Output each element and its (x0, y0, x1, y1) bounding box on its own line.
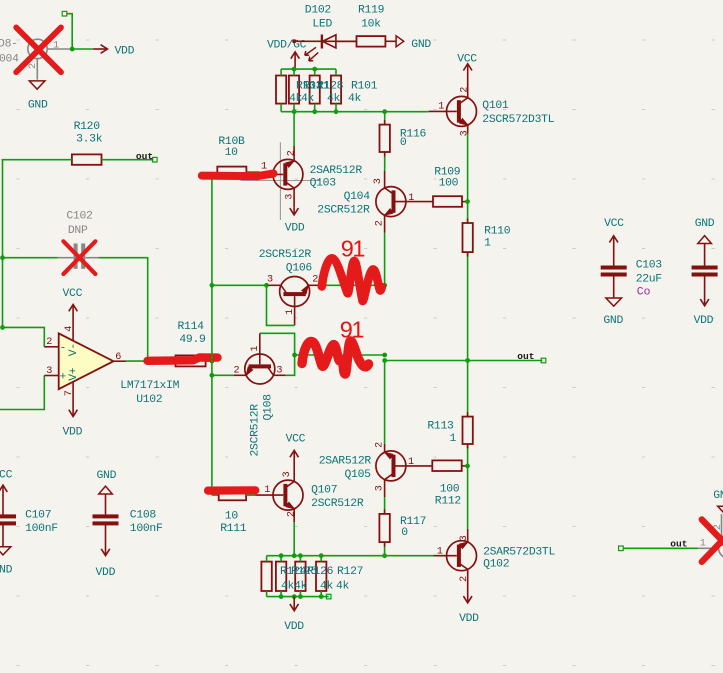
svg-text:out: out (517, 351, 534, 362)
svg-text:2: 2 (312, 274, 318, 285)
bottom bank top wire (267, 555, 434, 557)
svg-text:1: 1 (250, 345, 261, 351)
junction mid rail / Q108 wire (210, 373, 215, 378)
wire mid rail to Q106 (212, 284, 269, 286)
svg-text:V-: V- (68, 343, 80, 356)
svg-text:1: 1 (484, 238, 491, 250)
red marker short across R114 (148, 357, 218, 360)
resistor bank bottom R (col 4) (316, 556, 326, 597)
power symbol VCC above Q107 (286, 434, 306, 458)
unconnected end square out (541, 358, 546, 363)
svg-text:R127: R127 (337, 566, 363, 578)
svg-text:D102: D102 (305, 5, 332, 17)
svg-text:VDD: VDD (284, 621, 304, 633)
svg-text:2SCR512R: 2SCR512R (311, 498, 364, 510)
svg-text:out: out (136, 151, 153, 162)
junction mid rail / R114 (210, 359, 215, 364)
red X annotation over C102 (63, 241, 95, 274)
capacitor C103 22uF (601, 218, 663, 327)
op-amp U102 LM7171xIM (44, 322, 179, 406)
svg-text:22uF: 22uF (636, 273, 663, 285)
svg-text:2: 2 (287, 511, 298, 517)
svg-text:2: 2 (287, 150, 298, 156)
wire Q108 base loop (260, 333, 295, 375)
power symbol VCC above op-amp (63, 288, 83, 322)
top bank wire (VDD side) (281, 68, 336, 70)
junctions top bank upper wire (292, 67, 297, 72)
junction left rail / pin2 wire (0, 325, 5, 330)
svg-text:004: 004 (0, 54, 19, 66)
junction rail2 / R112 (465, 464, 470, 469)
capacitor C102 (DNP, grayed) (58, 211, 99, 269)
svg-text:49.9: 49.9 (179, 334, 206, 346)
svg-text:+: + (60, 372, 67, 384)
resistor R117 0 (379, 514, 426, 542)
svg-text:1: 1 (264, 485, 270, 496)
svg-text:VCC: VCC (604, 218, 624, 230)
junctions bottom bank bottom wire (279, 594, 284, 599)
wire rail2 (Q101 emitter to Q102 collector) (467, 134, 469, 530)
power symbol VDD below bottom bank (284, 597, 304, 633)
wire R114 to mid rail (206, 360, 212, 362)
transistor Q107 2SCR512R (255, 453, 364, 523)
transistor Q103 2SAR512R (259, 146, 362, 208)
svg-text:100nF: 100nF (25, 523, 58, 535)
svg-text:Q103: Q103 (310, 177, 337, 189)
junction left rail / C102 (0, 255, 5, 260)
svg-text:GND: GND (28, 100, 48, 112)
svg-text:4k: 4k (320, 580, 334, 592)
svg-text:Q105: Q105 (345, 469, 372, 481)
resistor R109 100 (433, 166, 468, 207)
transistor Q104 2SCR512R (317, 171, 433, 233)
resistor bank top R (col 4) (331, 69, 341, 112)
svg-text:2: 2 (375, 220, 386, 226)
red marker short across R111 (208, 486, 255, 495)
wire Q104 emitter down rail1 (384, 233, 386, 285)
svg-text:U102: U102 (136, 394, 163, 406)
svg-text:VDD: VDD (96, 567, 116, 579)
wire left rail to C102 (3, 257, 58, 259)
junction feedback/output (145, 359, 150, 364)
power symbol VDD/GC arrow on top bank (291, 52, 300, 69)
svg-text:4k: 4k (281, 580, 295, 592)
svg-text:Q101: Q101 (482, 100, 509, 112)
red X annotation over bottom-right connector (702, 520, 723, 562)
svg-text:1: 1 (700, 539, 706, 550)
wire mid rail to Q108 pin2 (212, 374, 234, 376)
resistor bank bottom R (col 1) (261, 556, 271, 597)
red marker squiggle resistor 1 (322, 258, 382, 301)
ground symbol GND below connector (28, 81, 48, 112)
svg-text:10k: 10k (361, 18, 381, 30)
resistor bank top R (col 2) (289, 69, 299, 112)
svg-text:1: 1 (438, 102, 444, 113)
svg-text:10: 10 (225, 147, 239, 159)
svg-text:4k: 4k (327, 93, 341, 105)
svg-text:4k: 4k (336, 580, 350, 592)
svg-text:1: 1 (408, 457, 414, 468)
power symbol VDD below Q103 (285, 208, 305, 235)
svg-text:VCC: VCC (457, 54, 477, 66)
svg-text:2SAR512R: 2SAR512R (319, 455, 372, 467)
transistor Q108 2SCR512R (diode-connected) (234, 333, 286, 456)
bottom bank value labels 4k (281, 580, 350, 592)
resistor bank bottom R (col 2) (276, 556, 286, 597)
transistor Q106 2SCR512R (diode-connected) (259, 249, 321, 326)
wire R120 to out label (102, 157, 158, 162)
wire out to connector (bottom right) (619, 546, 699, 551)
power symbol VDD below op-amp (63, 399, 83, 439)
svg-text:VCC: VCC (0, 470, 13, 482)
svg-text:GND: GND (0, 565, 13, 577)
svg-text:2: 2 (234, 365, 240, 376)
svg-text:GND: GND (411, 39, 431, 51)
svg-text:3: 3 (282, 471, 293, 477)
wire Q108 node to rail1 (squiggle2 net) (295, 354, 385, 356)
LED D102 (296, 5, 356, 61)
svg-text:2SCR572D3TL: 2SCR572D3TL (482, 114, 554, 126)
resistor R108 10 (212, 136, 260, 177)
svg-text:Q106: Q106 (286, 262, 313, 274)
wire rail1 top bank to R116 (384, 112, 386, 125)
svg-text:R119: R119 (358, 5, 385, 17)
svg-text:R111: R111 (220, 523, 247, 535)
bottom bank ref labels R124 R125 R126 R127 (280, 566, 363, 578)
svg-text:3: 3 (459, 535, 470, 541)
svg-text:3: 3 (46, 366, 52, 377)
gray cursor crosshair at Q103 (240, 142, 320, 220)
svg-text:2: 2 (46, 337, 52, 348)
wire rail1 down to Q105 (384, 361, 386, 445)
svg-text:100: 100 (440, 483, 460, 495)
svg-text:1: 1 (408, 193, 414, 204)
top bank lower wire to Q101 base (281, 111, 429, 113)
resistor R114 49.9 (176, 321, 207, 366)
transistor Q101 2SCR572D3TL (429, 67, 555, 137)
svg-text:2: 2 (460, 87, 471, 93)
svg-text:100: 100 (439, 177, 459, 189)
red marker squiggle resistor 2 (302, 341, 369, 374)
bottom bank bottom wire (267, 596, 329, 598)
wire Q103 collector to top bank (293, 112, 295, 146)
capacitor C104 (right edge) (692, 218, 718, 327)
svg-text:GND: GND (97, 470, 117, 482)
svg-text:-: - (60, 343, 67, 355)
svg-text:2: 2 (28, 63, 39, 69)
svg-text:LM7171xIM: LM7171xIM (120, 380, 179, 392)
svg-text:R114: R114 (178, 321, 205, 333)
wire to op-amp pin 2 (3, 327, 45, 346)
svg-text:C108: C108 (130, 510, 157, 522)
wire Q105 emitter to R117 (384, 497, 386, 514)
svg-text:VCC: VCC (63, 288, 83, 300)
svg-text:91: 91 (341, 235, 365, 261)
top bank value labels 4k (289, 93, 362, 105)
svg-text:1: 1 (285, 309, 296, 315)
svg-text:Co: Co (637, 287, 651, 299)
power symbol VDD (right arrow) (94, 45, 135, 58)
wire to op-amp pin 3 (0, 376, 44, 410)
wire from top square to VDD junction (62, 11, 72, 49)
unconnected end square bottom bank (326, 594, 331, 599)
svg-text:0: 0 (400, 137, 407, 149)
svg-text:R120: R120 (74, 121, 101, 133)
svg-text:3: 3 (374, 485, 385, 491)
svg-text:2: 2 (459, 576, 470, 582)
wire Q106 base loop (267, 285, 295, 325)
power label VDD/GC (267, 39, 307, 51)
svg-text:2SCR512R: 2SCR512R (250, 404, 262, 457)
svg-text:R126: R126 (307, 566, 334, 578)
wire C102 to feedback node (98, 258, 147, 361)
svg-text:GND: GND (603, 315, 623, 327)
svg-text:4k: 4k (348, 93, 362, 105)
svg-text:2SCR512R: 2SCR512R (259, 249, 312, 261)
resistor bank top R (col 3) (310, 69, 320, 112)
svg-text:3: 3 (276, 365, 282, 376)
junction Q106 base tie (264, 283, 269, 288)
svg-text:2: 2 (374, 442, 385, 448)
ground symbol GND right of R119 (385, 36, 431, 51)
svg-text:2SAR512R: 2SAR512R (310, 165, 363, 177)
svg-text:V+: V+ (68, 367, 80, 381)
wire output net to out label (385, 360, 543, 362)
svg-text:Q102: Q102 (483, 559, 510, 571)
svg-text:R10B: R10B (218, 136, 245, 148)
red X annotation over connector (16, 27, 61, 72)
svg-text:VDD: VDD (285, 223, 305, 235)
svg-text:LD8-: LD8- (0, 38, 18, 50)
svg-text:out: out (670, 538, 687, 549)
junction rail1 / squiggle2 wire (382, 353, 387, 358)
resistor R110 1 (463, 223, 511, 252)
svg-text:C102: C102 (66, 211, 93, 223)
junction rail2 / R109 (465, 199, 470, 204)
svg-text:VCC: VCC (286, 434, 306, 446)
junction rail1 / squiggle1 wire (382, 283, 387, 288)
svg-text:1: 1 (450, 433, 457, 445)
svg-text:C103: C103 (636, 259, 663, 271)
svg-text:3: 3 (373, 178, 384, 184)
svg-text:0: 0 (401, 527, 408, 539)
top bank ref labels R103 R121 R128 R101 (296, 81, 378, 93)
svg-text:DNP: DNP (68, 225, 88, 237)
resistor R119 10k (336, 5, 386, 47)
red marker short across R108 (202, 174, 274, 177)
resistor bank bottom R (col 3) (295, 556, 305, 597)
svg-text:C107: C107 (25, 510, 51, 522)
svg-text:Q108: Q108 (263, 394, 275, 421)
resistor R113 1 (427, 417, 472, 445)
power symbol VDD below Q102 (459, 596, 479, 625)
capacitor C108 100nF (93, 470, 163, 579)
wire op-amp out to R114 (126, 360, 175, 362)
resistor R111 10 (212, 490, 255, 535)
resistor R112 100 (432, 460, 467, 507)
resistor R116 0 (380, 125, 427, 152)
svg-text:6: 6 (115, 352, 121, 363)
svg-text:LED: LED (312, 18, 332, 30)
connector (DNP, grayed) bottom-right (698, 514, 723, 558)
svg-text:Q107: Q107 (311, 484, 337, 496)
wire Q106 to rail1 (squiggle net) (321, 284, 385, 286)
wire R117 to bottom bank wire (384, 542, 386, 556)
transistor Q102 2SAR572D3TL (434, 529, 556, 600)
svg-text:GND: GND (713, 490, 723, 502)
capacitor C107 100nF (0, 470, 58, 577)
resistor bank top R (col 1) (276, 69, 286, 112)
svg-text:10: 10 (225, 511, 239, 523)
svg-text:3: 3 (285, 194, 296, 200)
svg-text:91: 91 (340, 317, 364, 343)
connector J? (DNP, grayed) top-left (0, 38, 72, 79)
junction rail2 / out wire (465, 358, 470, 363)
svg-text:7: 7 (64, 390, 75, 396)
wire mid rail (R108 down to R111) (211, 174, 213, 496)
svg-text:4k: 4k (301, 93, 315, 105)
svg-text:2SCR512R: 2SCR512R (317, 204, 370, 216)
wire R116 to Q104 (384, 152, 386, 171)
junction at connector pin 1 (70, 47, 75, 52)
svg-text:VDD: VDD (63, 427, 83, 439)
svg-text:4: 4 (64, 326, 75, 332)
svg-text:3: 3 (460, 130, 471, 136)
wire Q107 emitter to bottom bank (293, 522, 295, 556)
transistor Q105 2SAR512R (319, 442, 433, 497)
resistor R120 3.3k (72, 121, 103, 165)
svg-text:R112: R112 (435, 496, 462, 508)
junction Q108 node / squiggle2 wire (292, 353, 297, 358)
junction mid rail / Q106 wire (210, 283, 215, 288)
svg-text:1: 1 (53, 41, 59, 52)
svg-text:3: 3 (267, 274, 273, 285)
svg-text:100nF: 100nF (130, 523, 163, 535)
svg-text:GND: GND (695, 218, 715, 230)
junction rail1 / out wire (382, 358, 387, 363)
svg-text:Q104: Q104 (344, 191, 371, 203)
svg-text:VDD: VDD (459, 613, 479, 625)
svg-text:R128: R128 (317, 81, 344, 93)
pin stubs dark red at vertical resistors (467, 219, 469, 224)
junctions bottom bank top wire (279, 553, 284, 558)
svg-text:3.3k: 3.3k (76, 134, 103, 146)
ground symbol GND bottom-right (partial) (713, 490, 723, 515)
svg-text:VDD: VDD (115, 46, 135, 58)
svg-text:R113: R113 (427, 421, 454, 433)
svg-text:4k: 4k (294, 580, 308, 592)
svg-text:R101: R101 (351, 81, 378, 93)
wire junction to VDD symbol (72, 48, 93, 50)
svg-text:R110: R110 (484, 226, 511, 238)
wire left rail to R120 (3, 160, 72, 328)
power symbol VCC above Q101 (457, 54, 477, 71)
junctions top bank lower wire (292, 109, 297, 114)
svg-text:2SAR572D3TL: 2SAR572D3TL (483, 547, 555, 559)
svg-text:VDD: VDD (694, 315, 714, 327)
svg-text:1: 1 (437, 547, 443, 558)
